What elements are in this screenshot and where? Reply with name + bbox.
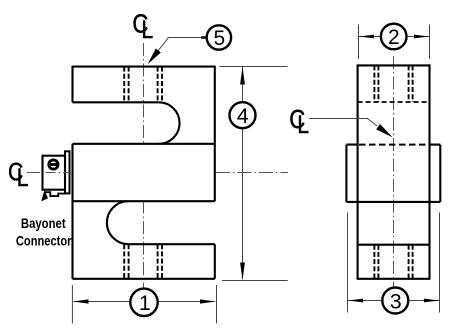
svg-text:L: L — [141, 16, 153, 44]
dimension 3 line — [348, 300, 439, 302]
bayonet connector body — [43, 156, 66, 190]
svg-text:2: 2 — [388, 26, 400, 49]
dimension 4 top arrowhead — [240, 67, 245, 85]
connector axis centerline overlay — [28, 172, 70, 174]
svg-text:5: 5 — [214, 27, 226, 50]
bayonet connector keyway (theta symbol) — [49, 160, 59, 169]
dimension 4 line — [242, 67, 244, 279]
middle block bottom edge — [73, 200, 215, 202]
right view column outline — [358, 64, 430, 279]
column left edge — [357, 64, 359, 144]
svg-text:3: 3 — [390, 289, 402, 313]
dimension 2 line — [359, 36, 429, 38]
centerline symbol left (connector axis) — [8, 158, 29, 191]
upper slot arc — [159, 102, 180, 144]
column left edge through middle — [357, 145, 359, 280]
dimension 1 line — [74, 301, 215, 303]
column right edge through middle — [428, 145, 430, 280]
dimension 3 left arrowhead — [348, 299, 363, 303]
svg-text:4: 4 — [237, 104, 249, 128]
middle block top edge hidden segment — [359, 144, 428, 146]
dimension 2 right extension line — [429, 25, 431, 60]
right view vertical centerline — [393, 56, 395, 288]
dimension 1 left arrowhead — [73, 299, 89, 303]
slot floor visible edge — [358, 244, 430, 246]
svg-text:1: 1 — [139, 291, 151, 315]
balloon 4 — [230, 102, 256, 128]
column top edge — [358, 64, 430, 66]
balloon 2 — [381, 24, 407, 50]
right view threaded hole hidden lines, bottom — [374, 245, 412, 279]
bayonet connector leader arrowhead — [41, 190, 48, 201]
right view centerline leader arrowhead — [376, 124, 392, 137]
bottom flange bottom edge — [73, 278, 215, 280]
balloon 3 — [382, 288, 408, 314]
svg-text:L: L — [17, 163, 29, 191]
right spine edge — [214, 66, 216, 202]
left spine edge — [71, 144, 73, 279]
centerline symbol top — [132, 10, 153, 44]
top flange bottom edge (slot top wall) — [73, 101, 159, 103]
svg-text:L: L — [297, 110, 309, 138]
dimension 4 bottom extension line — [222, 280, 288, 282]
dimension 1 right arrowhead — [200, 299, 216, 303]
right view threaded hole hidden lines, top — [374, 65, 412, 102]
dimension 4 bottom arrowhead — [240, 263, 245, 281]
dimension 1 right extension line — [216, 285, 218, 323]
centerline symbol middle (right view axis) — [289, 105, 309, 138]
lower slot floor edge — [128, 243, 214, 245]
left view horizontal centerline right segment — [216, 172, 288, 174]
left view horizontal centerline left segment — [27, 172, 71, 174]
right view hidden thread depth line (top) — [358, 101, 430, 103]
left view outline (S-shaped body) — [73, 66, 215, 279]
dimension 3 right extension line — [439, 213, 441, 313]
bayonet connector feet detail — [45, 192, 66, 196]
middle block top edge — [73, 143, 215, 145]
bayonet connector mounting plate — [65, 151, 70, 193]
balloon 1 — [130, 289, 157, 316]
dimension 3 right arrowhead — [424, 299, 439, 303]
left view vertical centerline — [143, 43, 145, 145]
middle block top edge solid ends — [346, 144, 440, 146]
right view centerline leader — [309, 119, 377, 127]
dimension 4 top extension line — [219, 66, 287, 68]
column right edge — [428, 64, 430, 144]
dimension 2 left arrowhead — [359, 35, 374, 39]
right view middle block — [346, 145, 440, 202]
balloon 5 leader — [158, 38, 207, 51]
svg-text:Bayonet: Bayonet — [21, 216, 66, 231]
lower slot arc — [107, 201, 129, 244]
balloon 5 — [207, 25, 231, 49]
dimension 2 left extension line — [358, 25, 360, 60]
threaded hole hidden lines, top flange — [124, 67, 162, 103]
threaded hole hidden lines, bottom flange — [124, 244, 162, 279]
column bottom edge — [358, 278, 430, 280]
top flange left edge — [71, 66, 73, 103]
top flange top edge — [73, 66, 215, 68]
dimension 2 right arrowhead — [414, 35, 429, 39]
middle block left edge — [345, 145, 347, 202]
dimension 1 left extension line — [71, 285, 73, 323]
dimension 3 left extension line — [347, 213, 349, 313]
balloon 5 leader arrowhead — [148, 49, 161, 65]
bottom flange right edge — [214, 244, 216, 279]
middle block bottom edge — [346, 201, 440, 203]
svg-text:Connector: Connector — [16, 234, 72, 249]
middle block right edge — [439, 145, 441, 202]
